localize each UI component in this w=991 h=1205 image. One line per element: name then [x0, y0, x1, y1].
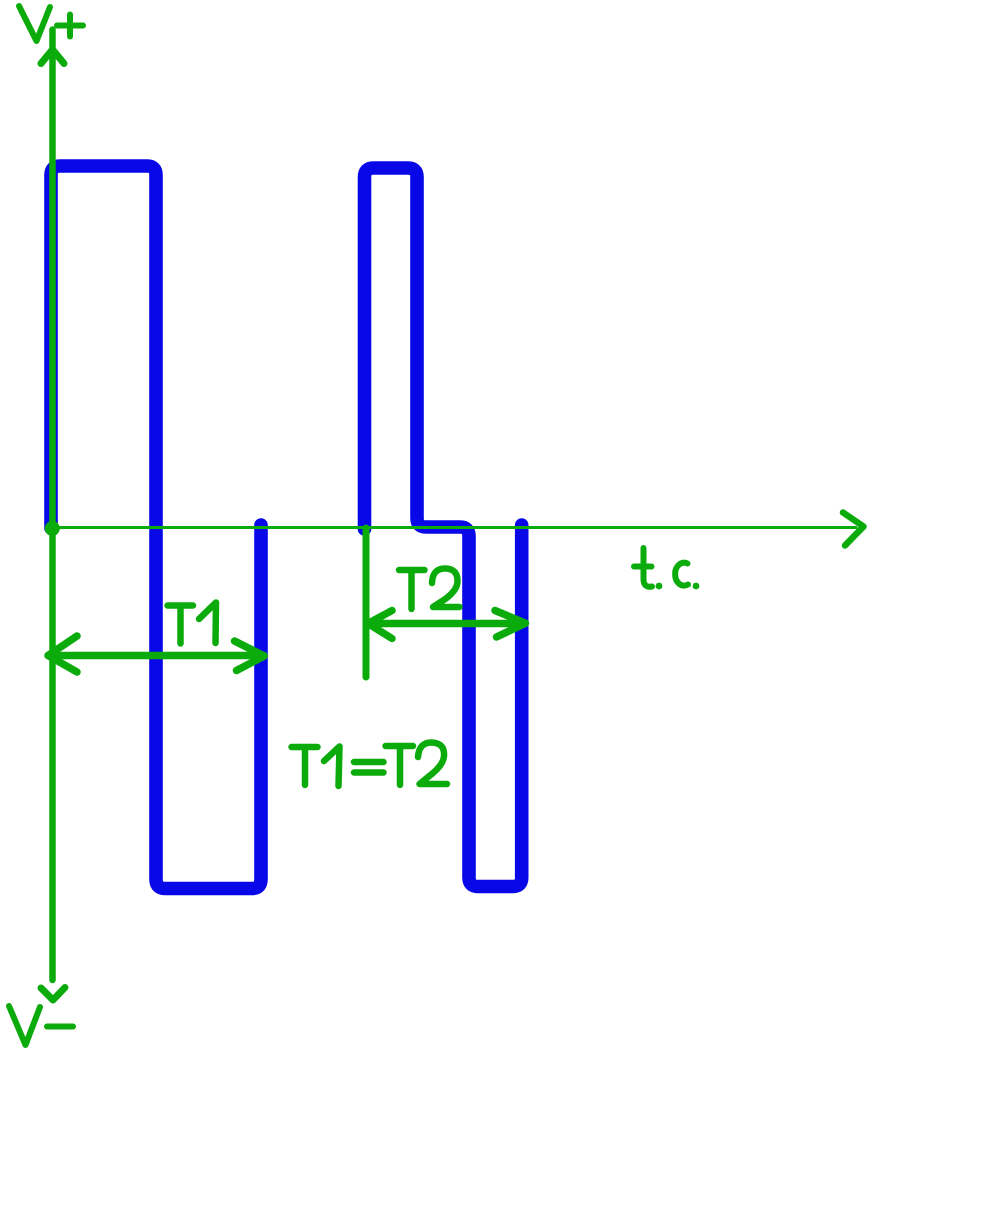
label V- : letter V: [9, 1006, 40, 1045]
T2 dimension arrow (double-headed): [368, 611, 526, 639]
t.c. dots: [656, 583, 663, 590]
vertical axis top arrowhead: [41, 50, 64, 64]
label T1: [168, 603, 217, 644]
waveform segment 1 (first positive + negative pulse, blue): [51, 166, 261, 889]
horizontal time axis (green): [52, 526, 856, 529]
label V+ : plus sign: [57, 15, 83, 37]
label V- : minus sign: [47, 1024, 73, 1030]
horizontal axis right arrowhead: [843, 513, 864, 546]
label V+ : letter V: [19, 6, 50, 41]
T1 dimension arrow (double-headed): [48, 636, 264, 672]
label T2: [399, 569, 460, 610]
vertical axis bottom arrowhead: [41, 988, 65, 1001]
origin dot: [45, 521, 60, 536]
T2 extension line (green, below axis at second pulse rise): [363, 528, 370, 677]
label T1=T2: [292, 743, 448, 787]
vertical axis V (green): [49, 30, 56, 981]
waveform segment 2 (second positive + negative pulse, blue): [365, 168, 522, 887]
label t.c.: [634, 548, 688, 587]
